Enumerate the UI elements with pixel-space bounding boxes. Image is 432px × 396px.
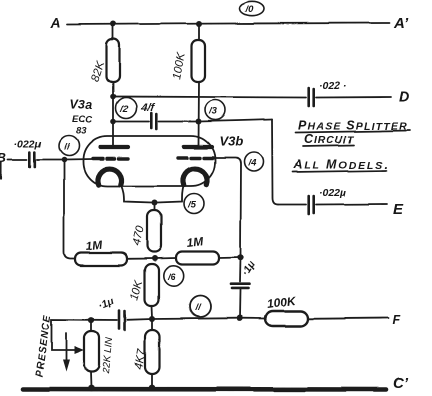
svg-text:CIRCUIT: CIRCUIT: [304, 132, 355, 146]
svg-text:83: 83: [76, 126, 87, 137]
wire A rail to resistor 82K: [112, 24, 114, 40]
wire plate-to-plate cap left: [113, 121, 149, 123]
svg-text:V3a: V3a: [70, 98, 92, 112]
wire junction to left grid: [64, 158, 92, 161]
cathode left triode: [98, 169, 122, 185]
tube V3 envelope: [83, 136, 215, 186]
wire E vertical drop: [272, 120, 278, 205]
svg-text:/5: /5: [187, 200, 197, 211]
junction dot F rail right: [236, 315, 242, 321]
wire 100K to right plate: [198, 82, 201, 145]
underline ALL MODELS: [293, 171, 386, 173]
junction dot ground presence: [88, 385, 95, 392]
svg-text:/6: /6: [167, 272, 177, 283]
junction dot presence top: [88, 317, 94, 323]
resistor 4K7 body: [145, 330, 160, 374]
circle label (16): [163, 266, 183, 286]
resistor 100K body: [192, 40, 206, 82]
plate bar right triode: [184, 145, 212, 149]
wire grid node down to 1M: [64, 160, 75, 259]
plate bar left triode: [100, 145, 128, 149]
wire F rail middle: [152, 317, 240, 320]
arrowhead wiper: [74, 347, 84, 355]
svg-text:ECC: ECC: [72, 115, 92, 126]
wire 82K to left plate (with taps): [112, 82, 114, 145]
wire presence wiper bend: [52, 320, 92, 351]
svg-text:·022μ: ·022μ: [319, 187, 347, 199]
arrowhead rotation mark: [63, 360, 70, 372]
circle label (14): [245, 153, 264, 172]
junction dot on A rail at R2: [196, 21, 202, 27]
junction dot center node: [152, 256, 158, 262]
svg-text:470: 470: [130, 225, 147, 247]
junction dot 10K/4K7 node: [149, 316, 155, 322]
svg-text:·022 ·: ·022 ·: [319, 80, 346, 92]
capacitor .1u presence: [119, 311, 125, 331]
capacitor .022 to D: [309, 88, 314, 106]
wire B input: [8, 159, 27, 161]
ground rail C': [23, 387, 386, 392]
capacitor .1u right: [231, 284, 249, 288]
grid dashes right triode: [178, 156, 213, 159]
svg-text:4/f: 4/f: [140, 102, 155, 114]
wire 1M right to grid drop: [219, 257, 241, 260]
circle label (11) input: [59, 136, 79, 156]
scan artifact left edge: [0, 163, 2, 178]
wire 10K to F rail: [151, 306, 154, 318]
wire right grid out: [213, 158, 241, 258]
svg-text:F: F: [392, 313, 400, 327]
underline PHASE SPLITTER: [296, 131, 410, 133]
wire to capacitor C-E: [278, 204, 306, 206]
circle label (10): [240, 1, 264, 15]
junction dot on A rail at R1: [110, 21, 116, 27]
wire A rail to resistor 100K: [198, 24, 200, 40]
wire to capacitor C-D: [113, 97, 306, 98]
wire right plate to E drop: [199, 120, 273, 122]
wire plate-to-plate cap right: [159, 121, 199, 123]
arrow rotation mark: [65, 333, 67, 361]
circle label (11) near F rail: [190, 296, 211, 317]
svg-text:/0: /0: [245, 4, 255, 15]
wire F rail to 100K: [240, 317, 266, 319]
resistor 1M right body: [176, 252, 219, 265]
svg-text:A’: A’: [393, 15, 409, 32]
svg-text:·022μ: ·022μ: [14, 138, 42, 150]
resistor 4K7 lead: [151, 319, 153, 330]
wire capacitor to E: [316, 203, 387, 206]
svg-text:D: D: [399, 89, 410, 106]
wire A to A' top rail: [67, 23, 389, 25]
capacitor .022u input: [30, 152, 35, 167]
wire left cathode lead: [121, 185, 152, 203]
wire cap to grid junction: [37, 159, 64, 161]
svg-text:C’: C’: [393, 375, 409, 392]
wire 1M left to center node: [127, 258, 155, 260]
wire 100K to F: [308, 317, 388, 320]
resistor 100K (F) body: [265, 311, 308, 326]
wire F rail presence to cap: [91, 319, 117, 321]
junction dot ground 4K7: [149, 385, 156, 392]
wire cap to 10K foot: [127, 318, 152, 321]
capacitor .022u to E: [309, 196, 314, 214]
resistor 1M left body: [75, 253, 127, 266]
svg-text:ALL MODELS.: ALL MODELS.: [293, 158, 389, 172]
underline CIRCUIT: [303, 145, 354, 146]
wire center node to 1M right: [155, 257, 177, 260]
svg-text:·1μ: ·1μ: [239, 258, 258, 278]
svg-text://: //: [63, 142, 71, 153]
svg-text:E: E: [393, 201, 404, 218]
resistor 470 body: [147, 210, 161, 252]
wire right cathode lead: [157, 185, 184, 203]
capacitor 47pF between plates: [151, 113, 156, 129]
wire pot top lead: [90, 320, 92, 331]
circle label (13): [205, 100, 225, 120]
wire right grid node to cap .1u: [239, 258, 242, 283]
circle label (15): [184, 194, 204, 214]
circle label (12): [116, 98, 137, 119]
junction dot right plate / cap row: [196, 119, 202, 125]
junction dot right grid node: [237, 254, 243, 260]
svg-text:/3: /3: [208, 106, 218, 117]
svg-text:V3b: V3b: [219, 134, 243, 149]
grid dashes left triode: [93, 157, 129, 160]
svg-text:1M: 1M: [186, 234, 205, 250]
svg-text:22K LIN: 22K LIN: [101, 337, 115, 376]
junction dot cathode node: [152, 200, 158, 206]
junction dot node D takeoff: [110, 94, 116, 100]
svg-text://: //: [194, 303, 202, 314]
svg-text:1M: 1M: [85, 237, 104, 253]
junction dot grid node: [61, 157, 67, 163]
resistor 470 lead: [154, 203, 156, 211]
resistor 10K body: [145, 264, 159, 306]
potentiometer 22K body: [84, 331, 99, 372]
resistor 82K body: [107, 39, 120, 82]
svg-text:10K: 10K: [128, 278, 145, 302]
wire pot bottom lead: [90, 372, 93, 388]
junction dot left plate / cap row: [110, 119, 116, 125]
svg-text:/2: /2: [119, 104, 129, 115]
svg-text:100K: 100K: [266, 293, 298, 311]
wire capacitor to D: [316, 96, 391, 99]
svg-text:100K: 100K: [171, 51, 188, 81]
wire 4K7 bottom lead: [151, 374, 153, 388]
svg-text:82K: 82K: [89, 58, 107, 82]
svg-text:A: A: [50, 15, 61, 31]
wire cap .1u to F rail: [239, 290, 242, 318]
svg-text:/4: /4: [248, 158, 258, 169]
svg-text:·1μ: ·1μ: [97, 295, 117, 312]
svg-text:4K7: 4K7: [133, 348, 148, 371]
cathode right triode: [183, 169, 207, 185]
